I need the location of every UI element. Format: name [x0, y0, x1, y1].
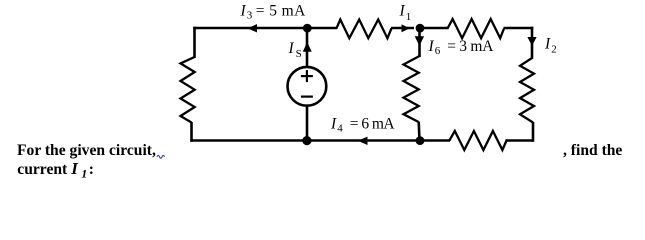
svg-text:I: I — [288, 40, 295, 57]
wire bottom-left segment (left corner to node C) — [190, 139, 307, 142]
node D (bottom, middle branch) — [416, 136, 425, 145]
svg-text:1: 1 — [81, 166, 87, 180]
wire source branch upper (node A to source) — [306, 28, 309, 67]
current arrow I1 (pointing right into node B) — [402, 24, 410, 32]
resistor R1 (left vertical) — [181, 57, 195, 123]
svg-text:I: I — [428, 38, 435, 55]
label I4 = 6 mA — [330, 115, 395, 134]
label I3 = 5 mA — [240, 2, 307, 21]
svg-text:4: 4 — [337, 123, 343, 135]
svg-text:S: S — [296, 48, 302, 60]
wire middle branch upper (node B to resistor R4) — [418, 28, 421, 57]
svg-text:2: 2 — [551, 43, 557, 55]
wire right vertical upper — [531, 27, 534, 59]
wire top-left segment (left corner to node A) — [193, 27, 307, 30]
svg-text:I: I — [544, 36, 551, 53]
wire node B to resistor R3 — [420, 27, 449, 30]
wire node A to resistor R2 — [307, 27, 337, 30]
wire resistor R5 to bottom-right corner — [506, 139, 534, 142]
resistor R3 (top right horizontal) — [448, 19, 505, 38]
svg-text:I: I — [240, 2, 247, 19]
label I1 — [399, 2, 412, 23]
svg-text:= 6 mA: = 6 mA — [350, 115, 396, 132]
wire node D to resistor R5 — [420, 139, 450, 142]
svg-text:I: I — [399, 2, 406, 19]
wire resistor R3 to top-right corner — [504, 27, 534, 30]
label IS — [288, 40, 302, 60]
node C (bottom, below source) — [302, 136, 311, 145]
voltage source plus sign — [301, 70, 313, 82]
resistor R6 (right vertical) — [520, 58, 534, 123]
wire left vertical upper — [193, 27, 196, 58]
resistor R5 (bottom right horizontal) — [449, 131, 506, 150]
spellcheck squiggle under comma — [157, 155, 165, 158]
resistor R2 (top middle horizontal) — [336, 20, 391, 39]
svg-text:, find the: , find the — [563, 142, 622, 159]
svg-text:6: 6 — [435, 45, 441, 57]
wire node C to node D (bottom middle) — [307, 139, 420, 142]
resistor R4 (middle vertical) — [404, 56, 420, 122]
svg-text::: : — [89, 161, 94, 178]
current arrow IS (pointing up into node A) — [303, 42, 312, 52]
svg-text:3: 3 — [247, 9, 253, 21]
node A (top, above source) — [303, 24, 312, 33]
voltage source minus sign — [301, 95, 313, 97]
svg-text:I: I — [330, 115, 337, 132]
svg-text:= 5 mA: = 5 mA — [256, 2, 306, 19]
node B (top, middle branch) — [416, 24, 425, 33]
wire resistor R2 to node B — [391, 27, 414, 30]
wire middle branch lower (resistor R4 to node D) — [417, 122, 420, 141]
current arrow I3 (top wire, pointing left) — [248, 24, 258, 32]
current arrow I2 (pointing down, right branch) — [527, 37, 536, 46]
svg-text:I: I — [70, 159, 79, 178]
svg-text:For the given circuit,: For the given circuit, — [17, 142, 156, 159]
current arrow I6 (pointing down from node B) — [415, 36, 424, 46]
svg-text:1: 1 — [406, 11, 412, 23]
voltage source VS circle — [288, 67, 327, 106]
wire left vertical lower — [190, 122, 193, 142]
svg-text:= 3 mA: = 3 mA — [447, 38, 494, 55]
current arrow I4 (bottom wire, pointing left) — [358, 137, 368, 145]
label I2 — [544, 36, 557, 56]
label I6 = 3 mA — [428, 38, 495, 57]
wire right vertical lower — [532, 122, 535, 142]
svg-text:current: current — [17, 161, 68, 178]
wire source branch lower (source to node C) — [306, 106, 309, 141]
